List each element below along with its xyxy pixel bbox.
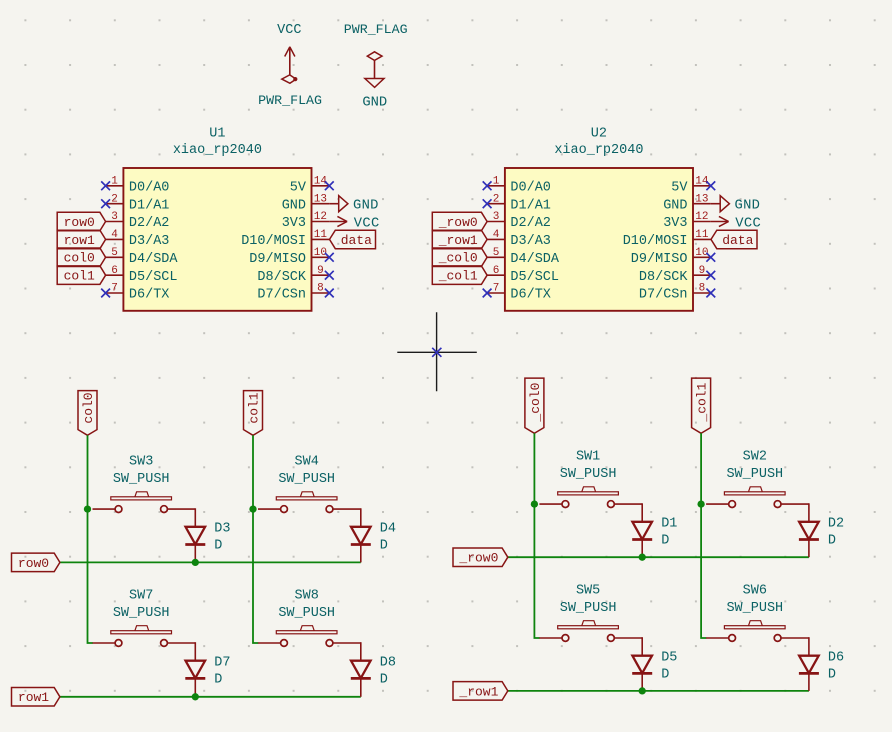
wire	[641, 540, 643, 558]
svg-text:3: 3	[493, 211, 500, 223]
no-connect pin 10 U2	[706, 253, 715, 262]
svg-text:D1/A1: D1/A1	[510, 198, 551, 213]
pin 3 U1 D2/A2	[106, 211, 170, 231]
wire	[641, 503, 643, 522]
pin 13 U1 GND	[282, 193, 330, 213]
no-connect pin 1 U1	[101, 181, 110, 190]
switch SW2	[706, 450, 809, 508]
svg-text:9: 9	[699, 265, 706, 277]
wire row0	[60, 561, 361, 563]
no-connect pin 14 U1	[325, 181, 334, 190]
diode D6	[799, 651, 844, 683]
svg-text:D2/A2: D2/A2	[129, 216, 170, 231]
global label row1	[12, 688, 60, 707]
svg-text:row0: row0	[18, 556, 49, 571]
global label row0	[12, 553, 60, 572]
svg-text:GND: GND	[353, 199, 379, 214]
pin 2 U2 D1/A1	[487, 193, 551, 213]
no-connect pin 9 U1	[325, 271, 334, 280]
switch SW1	[539, 450, 642, 508]
diode D5	[632, 651, 677, 683]
junction	[639, 554, 646, 561]
svg-text:D8/SCK: D8/SCK	[257, 270, 307, 285]
wire	[360, 508, 362, 527]
svg-text:D7/CSn: D7/CSn	[257, 288, 306, 303]
svg-text:D9/MISO: D9/MISO	[249, 252, 306, 267]
svg-text:VCC: VCC	[277, 23, 301, 38]
pin 2 U1 D1/A1	[106, 193, 170, 213]
svg-text:GND: GND	[663, 198, 687, 213]
pin 12 U1 3V3	[282, 211, 330, 231]
switch SW7	[93, 588, 196, 646]
svg-text:SW_PUSH: SW_PUSH	[560, 467, 617, 482]
svg-text:3: 3	[111, 211, 118, 223]
svg-text:row1: row1	[64, 233, 95, 248]
svg-text:8: 8	[699, 283, 706, 295]
pin 3 U2 D2/A2	[487, 211, 551, 231]
svg-text:D4/SDA: D4/SDA	[510, 252, 560, 267]
wire _row0	[508, 556, 809, 558]
svg-text:D7/CSn: D7/CSn	[639, 288, 688, 303]
svg-text:_col1: _col1	[695, 382, 710, 422]
svg-text:VCC: VCC	[354, 216, 380, 231]
svg-text:9: 9	[317, 265, 324, 277]
svg-text:D2/A2: D2/A2	[510, 216, 551, 231]
svg-text:D10/MOSI: D10/MOSI	[623, 234, 688, 249]
wire col0	[88, 435, 93, 643]
global label col1	[57, 266, 105, 285]
svg-text:13: 13	[314, 193, 327, 205]
pin 7 U2 D6/TX	[487, 283, 551, 303]
switch SW4	[258, 455, 361, 513]
svg-text:4: 4	[493, 229, 500, 241]
pin 8 U1 D7/CSn	[257, 283, 329, 303]
svg-text:D5: D5	[661, 651, 677, 666]
svg-text:SW8: SW8	[295, 588, 319, 603]
no-connect pin 1 U2	[483, 181, 492, 190]
pin 6 U1 D5/SCL	[106, 265, 178, 285]
svg-text:col1: col1	[64, 269, 95, 284]
pin 10 U2 D9/MISO	[631, 247, 711, 267]
IC U1 xiao_rp2040	[123, 127, 311, 311]
svg-text:1: 1	[493, 175, 500, 187]
no-connect pin 2 U2	[483, 199, 492, 208]
svg-text:row0: row0	[64, 215, 95, 230]
svg-text:SW_PUSH: SW_PUSH	[726, 467, 783, 482]
svg-text:VCC: VCC	[735, 216, 761, 231]
wire	[641, 637, 643, 656]
svg-text:D: D	[380, 539, 388, 554]
pin 9 U1 D8/SCK	[257, 265, 329, 285]
pin 14 U1 5V	[290, 175, 330, 195]
svg-text:SW4: SW4	[295, 455, 319, 470]
diode D7	[185, 656, 230, 688]
wire _col1	[701, 433, 706, 638]
svg-text:col0: col0	[64, 251, 95, 266]
svg-text:PWR_FLAG: PWR_FLAG	[258, 93, 322, 108]
no-connect pin 8 U2	[706, 289, 715, 298]
pin 13 U2 GND	[663, 193, 711, 213]
wire col1	[253, 435, 258, 643]
power flag PWR_FLAG (right)	[344, 22, 408, 60]
svg-text:SW_PUSH: SW_PUSH	[113, 472, 170, 487]
svg-text:D8/SCK: D8/SCK	[639, 270, 689, 285]
svg-text:12: 12	[695, 211, 708, 223]
svg-text:2: 2	[493, 193, 500, 205]
power symbol GND at pin 13 U1	[329, 196, 378, 214]
svg-text:row1: row1	[18, 690, 49, 705]
svg-text:PWR_FLAG: PWR_FLAG	[344, 22, 408, 37]
svg-text:SW2: SW2	[743, 450, 767, 465]
origin crosshair	[397, 312, 477, 391]
svg-text:D7: D7	[214, 656, 230, 671]
pin 14 U2 5V	[671, 175, 711, 195]
svg-text:data: data	[341, 233, 372, 248]
svg-text:_col0: _col0	[438, 251, 478, 266]
power symbol VCC at pin 12 U2	[711, 216, 761, 231]
pin 8 U2 D7/CSn	[639, 283, 711, 303]
svg-text:D9/MISO: D9/MISO	[631, 252, 688, 267]
switch SW5	[539, 583, 642, 641]
global label data	[330, 230, 376, 249]
wire	[194, 508, 196, 527]
svg-text:11: 11	[314, 229, 328, 241]
svg-text:6: 6	[111, 265, 118, 277]
pin 10 U1 D9/MISO	[249, 247, 329, 267]
wire _col0	[534, 433, 539, 638]
diode D8	[351, 656, 396, 688]
svg-text:_row1: _row1	[458, 684, 498, 699]
no-connect pin 9 U2	[706, 271, 715, 280]
svg-text:SW6: SW6	[743, 583, 767, 598]
svg-text:D3/A3: D3/A3	[129, 234, 170, 249]
svg-text:_row0: _row0	[458, 551, 498, 566]
pin 5 U1 D4/SDA	[106, 247, 179, 267]
pin 4 U2 D3/A3	[487, 229, 551, 249]
svg-text:SW_PUSH: SW_PUSH	[278, 606, 335, 621]
pin 11 U2 D10/MOSI	[623, 229, 711, 249]
svg-text:D3: D3	[214, 522, 230, 537]
svg-text:SW_PUSH: SW_PUSH	[726, 601, 783, 616]
svg-text:D: D	[380, 673, 388, 688]
svg-text:D: D	[828, 534, 836, 549]
svg-text:5V: 5V	[290, 180, 307, 195]
svg-text:GND: GND	[362, 95, 387, 110]
svg-text:D0/A0: D0/A0	[129, 180, 170, 195]
junction	[249, 505, 256, 512]
wire	[194, 545, 196, 563]
switch SW8	[258, 588, 361, 646]
svg-text:GND: GND	[735, 199, 761, 214]
svg-text:D: D	[828, 668, 836, 683]
global label data	[711, 230, 757, 249]
svg-text:D10/MOSI: D10/MOSI	[241, 234, 306, 249]
wire	[194, 642, 196, 661]
svg-text:D4/SDA: D4/SDA	[129, 252, 179, 267]
svg-text:11: 11	[695, 229, 709, 241]
no-connect pin 8 U1	[325, 289, 334, 298]
svg-text:8: 8	[317, 283, 324, 295]
pin 6 U2 D5/SCL	[487, 265, 559, 285]
wire	[194, 678, 196, 696]
svg-text:13: 13	[695, 193, 708, 205]
wire	[808, 503, 810, 522]
svg-text:D: D	[214, 539, 222, 554]
wire _row1	[508, 690, 809, 692]
svg-text:SW_PUSH: SW_PUSH	[113, 606, 170, 621]
power symbol GND at pin 13 U2	[711, 196, 760, 214]
pin 9 U2 D8/SCK	[639, 265, 711, 285]
junction	[639, 687, 646, 694]
svg-text:D: D	[661, 534, 669, 549]
power flag PWR_FLAG (left)	[258, 75, 322, 108]
svg-text:D6: D6	[828, 651, 844, 666]
diode D2	[799, 517, 844, 549]
global label row0	[57, 212, 105, 231]
junction	[697, 500, 704, 507]
svg-text:D0/A0: D0/A0	[510, 180, 551, 195]
svg-text:col0: col0	[81, 392, 96, 423]
global label _col0	[525, 378, 544, 433]
no-connect pin 14 U2	[706, 181, 715, 190]
global label _col1	[432, 266, 487, 285]
svg-text:D5/SCL: D5/SCL	[129, 270, 178, 285]
junction	[84, 505, 91, 512]
svg-text:xiao_rp2040: xiao_rp2040	[173, 143, 262, 158]
svg-text:3V3: 3V3	[282, 216, 306, 231]
power symbol GND (top)	[362, 60, 387, 110]
svg-text:7: 7	[493, 283, 500, 295]
svg-text:U1: U1	[209, 127, 225, 142]
global label _col1	[692, 378, 711, 433]
svg-text:D4: D4	[380, 522, 396, 537]
global label _col0	[432, 248, 487, 267]
svg-text:D: D	[661, 668, 669, 683]
svg-text:2: 2	[111, 193, 118, 205]
global label col0	[57, 248, 105, 267]
svg-text:SW5: SW5	[576, 583, 600, 598]
wire	[808, 637, 810, 656]
IC U2 xiao_rp2040	[505, 127, 693, 311]
pin 4 U1 D3/A3	[106, 229, 170, 249]
svg-text:1: 1	[111, 175, 118, 187]
svg-text:D1/A1: D1/A1	[129, 198, 170, 213]
power symbol VCC at pin 12 U1	[329, 216, 379, 231]
svg-text:D3/A3: D3/A3	[510, 234, 551, 249]
global label _row1	[432, 230, 487, 249]
global label _row0	[453, 548, 508, 567]
svg-text:_col0: _col0	[528, 383, 543, 423]
power symbol VCC (top)	[277, 23, 301, 75]
junction	[192, 559, 199, 566]
svg-text:D6/TX: D6/TX	[129, 288, 170, 303]
svg-text:GND: GND	[282, 198, 306, 213]
diode D3	[185, 522, 230, 554]
pin 5 U2 D4/SDA	[487, 247, 560, 267]
pin 7 U1 D6/TX	[106, 283, 170, 303]
pin 1 U1 D0/A0	[106, 175, 170, 195]
svg-text:D5/SCL: D5/SCL	[510, 270, 559, 285]
global label col0	[78, 391, 97, 436]
no-connect pin 7 U2	[483, 289, 492, 298]
pin 1 U2 D0/A0	[487, 175, 551, 195]
svg-text:SW_PUSH: SW_PUSH	[560, 601, 617, 616]
diode D4	[351, 522, 396, 554]
diode D1	[632, 517, 677, 549]
switch SW3	[93, 455, 196, 513]
svg-text:xiao_rp2040: xiao_rp2040	[554, 143, 643, 158]
svg-text:_col1: _col1	[438, 269, 478, 284]
wire	[360, 545, 362, 563]
svg-text:D: D	[214, 673, 222, 688]
svg-text:D8: D8	[380, 656, 396, 671]
svg-text:5: 5	[111, 247, 118, 259]
svg-text:D6/TX: D6/TX	[510, 288, 551, 303]
no-connect pin 10 U1	[325, 253, 334, 262]
wire	[360, 678, 362, 696]
wire row1	[60, 696, 361, 698]
svg-text:_row0: _row0	[438, 215, 478, 230]
svg-text:5V: 5V	[671, 180, 688, 195]
pin 11 U1 D10/MOSI	[241, 229, 329, 249]
pin 12 U2 3V3	[663, 211, 711, 231]
svg-text:data: data	[722, 233, 753, 248]
svg-text:col1: col1	[246, 392, 261, 423]
svg-text:SW3: SW3	[129, 455, 153, 470]
wire	[808, 540, 810, 558]
svg-text:6: 6	[493, 265, 500, 277]
global label _row0	[432, 212, 487, 231]
svg-text:SW_PUSH: SW_PUSH	[278, 472, 335, 487]
no-connect pin 7 U1	[101, 289, 110, 298]
svg-text:D1: D1	[661, 517, 677, 532]
svg-text:U2: U2	[591, 127, 607, 142]
svg-text:3V3: 3V3	[663, 216, 687, 231]
global label col1	[244, 391, 263, 436]
wire	[808, 673, 810, 691]
no-connect pin 2 U1	[101, 199, 110, 208]
svg-text:SW1: SW1	[576, 450, 600, 465]
svg-text:12: 12	[314, 211, 327, 223]
wire	[641, 673, 643, 691]
wire	[360, 642, 362, 661]
svg-text:5: 5	[493, 247, 500, 259]
switch SW6	[706, 583, 809, 641]
svg-text:4: 4	[111, 229, 118, 241]
global label _row1	[453, 682, 508, 701]
svg-text:SW7: SW7	[129, 588, 153, 603]
svg-text:_row1: _row1	[438, 233, 478, 248]
svg-text:D2: D2	[828, 517, 844, 532]
svg-text:7: 7	[111, 283, 118, 295]
global label row1	[57, 230, 105, 249]
junction	[531, 500, 538, 507]
junction	[192, 693, 199, 700]
